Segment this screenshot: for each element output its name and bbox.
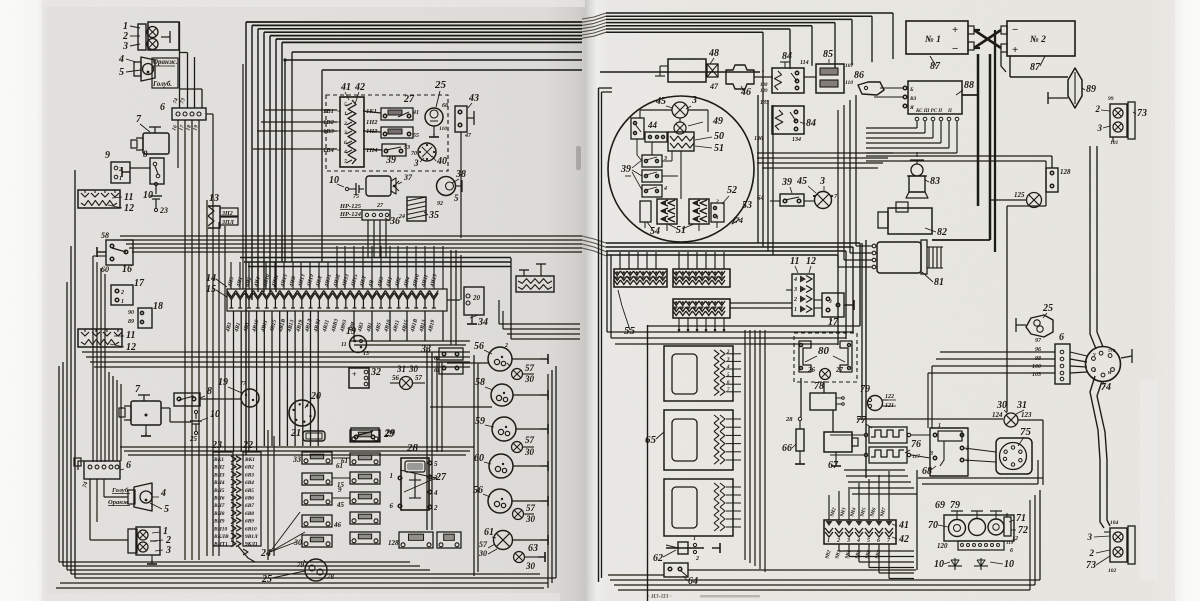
wire left edge loops (74, 170, 76, 578)
svg-text:4: 4 (726, 365, 730, 370)
wire cluster internals (679, 118, 681, 122)
component 9 switch (111, 162, 130, 183)
cluster box 54 (640, 201, 651, 222)
svg-text:6В2: 6В2 (245, 465, 254, 471)
svg-text:−: − (952, 43, 958, 55)
wire center verticals long (206, 200, 208, 556)
lamp in 80 (820, 369, 831, 380)
battery crossover wires (974, 30, 1001, 48)
svg-text:8: 8 (207, 386, 212, 397)
svg-text:86: 86 (854, 70, 864, 81)
lamp 40-3 (418, 143, 436, 161)
wire connector 6 down bundle (177, 120, 179, 168)
wire battery2 to 89 (1009, 56, 1011, 77)
wire top bus over 55 (606, 246, 853, 248)
lamp 30-31 right (1004, 413, 1018, 427)
svg-text:25: 25 (1042, 303, 1053, 314)
svg-text:3: 3 (793, 287, 797, 293)
svg-text:48: 48 (708, 48, 719, 59)
battery No2 (1007, 21, 1075, 56)
svg-text:73: 73 (1086, 560, 1096, 571)
svg-text:3: 3 (929, 451, 933, 457)
svg-text:+: + (352, 370, 357, 379)
wire 74 right T (1121, 356, 1132, 358)
horn T left (1016, 324, 1026, 326)
svg-text:19: 19 (346, 326, 356, 337)
bottom motor 7 b (131, 401, 161, 425)
wire bus into connector 6 right (940, 351, 1055, 353)
instrument cluster circle (608, 96, 754, 242)
wire misc bottom (199, 559, 430, 561)
svg-text:109: 109 (760, 89, 768, 94)
wire 55 left feed verticals (606, 251, 608, 332)
svg-text:4: 4 (118, 54, 124, 65)
svg-text:1В4: 1В4 (323, 147, 335, 154)
svg-text:124: 124 (992, 411, 1003, 419)
svg-text:31: 31 (1016, 400, 1027, 411)
wire 55 feeds top (619, 252, 621, 269)
wire bus line y70 (322, 69, 582, 71)
svg-text:74: 74 (1101, 382, 1111, 393)
svg-text:30: 30 (478, 549, 487, 558)
svg-text:ВК1: ВК1 (244, 457, 255, 463)
svg-text:56: 56 (392, 374, 400, 382)
wire gutter crossing top bus (582, 13, 606, 19)
svg-text:23: 23 (159, 206, 168, 215)
wire x237-243 bundle (236, 120, 238, 289)
wire bottom left loop horizontals (75, 577, 556, 579)
ground resistor bank right (516, 276, 554, 292)
wire bottom nested loops right page (614, 557, 836, 559)
svg-text:57: 57 (525, 435, 535, 445)
svg-text:42: 42 (354, 82, 365, 93)
wire block C to divider (730, 302, 792, 304)
svg-text:5: 5 (119, 67, 124, 78)
svg-text:11: 11 (124, 192, 133, 203)
wire 41-42 below fan (838, 544, 840, 551)
switch 64 (664, 563, 688, 577)
svg-text:88: 88 (964, 80, 974, 91)
svg-text:101: 101 (1110, 140, 1119, 146)
svg-text:3: 3 (122, 41, 128, 52)
wire 7b 8b links (199, 398, 241, 400)
wire top bus bundle left page (246, 21, 582, 23)
wire 55c bottom pins (678, 318, 680, 330)
svg-text:ЗН2: ЗН2 (221, 211, 233, 217)
svg-text:30: 30 (996, 400, 1007, 411)
svg-text:60: 60 (474, 453, 484, 464)
sensor 79 right (868, 396, 883, 411)
svg-text:7: 7 (344, 159, 347, 165)
svg-text:66: 66 (782, 443, 792, 454)
svg-text:6: 6 (1059, 332, 1064, 343)
wire lamp 3031 right (1018, 419, 1043, 421)
svg-text:55: 55 (624, 325, 636, 337)
svg-text:5: 5 (164, 504, 169, 515)
svg-text:Голуб: Голуб (111, 487, 129, 494)
cluster box 52 (711, 203, 724, 222)
svg-text:КС Ш РС П: КС Ш РС П (915, 109, 943, 114)
svg-text:68: 68 (922, 466, 932, 477)
svg-text:2: 2 (836, 538, 840, 544)
ignition coil 83 (911, 164, 923, 176)
svg-text:17: 17 (134, 278, 145, 289)
lamp 2 top (147, 27, 158, 38)
svg-text:41: 41 (412, 110, 419, 116)
ignition switch 20 (289, 400, 315, 426)
cluster heater blocks (657, 199, 677, 224)
svg-text:20: 20 (472, 294, 481, 302)
svg-text:42: 42 (898, 534, 909, 545)
battery cables down (977, 54, 980, 206)
svg-text:33: 33 (292, 455, 301, 464)
connector block 55 a (614, 269, 667, 287)
svg-text:1: 1 (827, 538, 830, 544)
svg-text:6В8: 6В8 (245, 511, 254, 517)
wire 77-76 left links (830, 434, 864, 436)
svg-text:2: 2 (433, 504, 438, 512)
wire lamp3130 (390, 382, 399, 384)
svg-text:Оранж.: Оранж. (153, 58, 178, 66)
diode 10 b (980, 558, 982, 570)
component 38 lamp (437, 177, 456, 196)
svg-text:47: 47 (709, 82, 719, 91)
svg-text:5: 5 (344, 102, 347, 108)
svg-text:37: 37 (403, 173, 413, 182)
svg-text:1: 1 (938, 423, 941, 429)
divider strip 11-12 right (792, 274, 814, 316)
lamp unit 73 top right (1110, 104, 1127, 137)
connector strip 22-23 (213, 452, 233, 546)
svg-text:6В4: 6В4 (245, 480, 254, 486)
svg-text:136: 136 (754, 136, 763, 142)
svg-text:61: 61 (484, 527, 494, 538)
svg-text:5: 5 (434, 460, 438, 468)
lamp 63 (514, 552, 525, 563)
capacitor 10 b (194, 410, 197, 413)
capacitor 10-75 mid (345, 187, 348, 190)
svg-text:+: + (952, 24, 958, 36)
wire 37 connections (347, 185, 366, 187)
wire horizontals y257 (240, 257, 511, 259)
svg-text:28: 28 (785, 416, 793, 423)
cluster switches 39 triple (642, 155, 662, 167)
battery No1 (906, 21, 968, 54)
connector block 55 b (673, 269, 730, 287)
lamp unit 1-3 b (136, 527, 160, 555)
svg-text:1Н2: 1Н2 (366, 119, 378, 126)
svg-text:24: 24 (260, 548, 271, 559)
wiper motor 37 (366, 176, 391, 196)
fog lamp 61 (494, 531, 513, 550)
wire 36 down bundle (367, 220, 369, 257)
wire 73 top down (1096, 137, 1098, 146)
svg-text:85: 85 (823, 49, 833, 60)
svg-text:56: 56 (474, 341, 484, 352)
wire horn down (1039, 337, 1041, 352)
cluster box 44 (645, 132, 667, 142)
switch 27 a (381, 108, 413, 120)
wire 41-42 loops above (844, 469, 905, 471)
svg-text:62: 62 (653, 553, 663, 564)
wire bottom mid verticals (267, 430, 269, 560)
svg-text:68: 68 (442, 103, 448, 109)
svg-text:5: 5 (867, 538, 870, 544)
svg-text:Голуб.: Голуб. (152, 80, 172, 88)
svg-text:79: 79 (860, 384, 870, 395)
svg-text:Оранж: Оранж (108, 499, 130, 506)
svg-text:9В1Л: 9В1Л (245, 534, 258, 540)
svg-text:4: 4 (663, 186, 667, 192)
lamp circles b (138, 530, 148, 540)
gauge 70 (949, 520, 966, 537)
wire gutter crossing mid bus (582, 236, 606, 243)
svg-text:25: 25 (434, 79, 447, 91)
svg-text:1: 1 (693, 536, 696, 542)
svg-text:27: 27 (376, 203, 384, 209)
horn 25 right (1026, 315, 1053, 337)
svg-text:87: 87 (930, 61, 941, 72)
lamp 3 top (147, 39, 158, 50)
svg-text:3: 3 (726, 358, 730, 363)
wire 75 loops right (1032, 459, 1043, 461)
wire circle-right vertical bundle (757, 95, 759, 243)
switch 27 b (381, 127, 413, 138)
svg-text:30: 30 (524, 447, 535, 457)
svg-text:89: 89 (1086, 84, 1096, 95)
svg-text:№ 1: № 1 (925, 35, 941, 45)
svg-text:134: 134 (792, 137, 801, 143)
gauge top T bars (951, 510, 963, 512)
wire verticals into strip from top (230, 262, 232, 289)
wire 41-42 verticals above (828, 495, 830, 520)
svg-text:29: 29 (383, 429, 394, 440)
wire 88 terminal drops (916, 121, 918, 128)
lamp unit 1-3 top housing (148, 22, 179, 50)
svg-text:4: 4 (160, 488, 166, 499)
wire 88 right to cables (962, 94, 978, 96)
wire 68 to 75 (964, 448, 996, 452)
svg-text:3: 3 (1097, 123, 1103, 133)
svg-text:ВЗ: ВЗ (909, 96, 916, 102)
lamp 25 instrument (425, 108, 443, 126)
wire left small bundle (92, 256, 94, 462)
svg-text:Б: Б (909, 87, 914, 93)
motor 7 (143, 133, 169, 154)
svg-text:9КЛ1: 9КЛ1 (245, 542, 258, 548)
relay 84 a (772, 68, 804, 93)
distributor small 19 (350, 336, 367, 353)
component 48 (668, 59, 706, 82)
svg-text:75: 75 (1020, 426, 1032, 438)
connector strip 14-15 (227, 289, 447, 311)
wire from connector right (206, 113, 213, 115)
svg-text:НР-125: НР-125 (339, 203, 362, 210)
svg-text:38: 38 (455, 169, 466, 180)
svg-text:69: 69 (935, 500, 945, 511)
starter 82 (888, 208, 932, 234)
lamp 45-3 b (815, 192, 832, 209)
svg-text:10: 10 (1004, 559, 1014, 570)
svg-text:78: 78 (327, 573, 335, 581)
connector 6 top (172, 108, 206, 120)
svg-text:27: 27 (403, 94, 415, 105)
svg-text:21: 21 (290, 428, 301, 439)
wire lamp column verticals (473, 355, 475, 576)
component 85 (816, 64, 844, 93)
wire left trunk upper (111, 170, 120, 172)
svg-text:79: 79 (950, 500, 960, 511)
lamp 5 glass top (143, 64, 154, 75)
wire fuse labels left (265, 109, 337, 111)
relay column A (302, 452, 332, 464)
component 21 (303, 431, 325, 441)
fuse 35 hatched box (407, 197, 426, 221)
gauge right (988, 519, 1004, 535)
svg-text:71: 71 (1016, 513, 1026, 524)
svg-text:I: I (1094, 368, 1096, 373)
svg-text:82: 82 (937, 227, 947, 238)
svg-text:87: 87 (1030, 62, 1041, 73)
wire mid-right horizontal y419 (857, 418, 1003, 420)
svg-text:ЗПЛ: ЗПЛ (221, 220, 235, 226)
wire right mid vertical bundle (855, 95, 857, 246)
svg-text:74: 74 (735, 216, 743, 225)
side lamp 4-5 b (134, 483, 152, 511)
svg-text:12: 12 (1012, 536, 1018, 542)
svg-text:78: 78 (814, 381, 824, 392)
svg-text:1: 1 (121, 299, 124, 305)
svg-text:−: − (1012, 24, 1018, 36)
relay 75 socket (996, 438, 1032, 474)
relay box 80 dashed (794, 333, 857, 382)
fuse panel dashed box (326, 95, 448, 171)
svg-text:135: 135 (760, 100, 769, 106)
svg-text:3: 3 (433, 474, 438, 482)
svg-text:83: 83 (930, 176, 940, 187)
headlamp 56 a (488, 347, 512, 371)
svg-text:80: 80 (818, 345, 830, 357)
svg-text:41: 41 (340, 82, 351, 93)
wire 39c to lamp (804, 200, 814, 202)
svg-text:9: 9 (105, 150, 110, 161)
switch block 68 (930, 428, 968, 476)
svg-text:43: 43 (468, 93, 479, 104)
svg-text:67: 67 (828, 460, 839, 471)
resistor block 11-12 upper (78, 190, 120, 208)
wire relay feeds from strip (281, 451, 283, 453)
wire 65 right vertical bundle (744, 330, 746, 560)
svg-text:122: 122 (885, 394, 894, 400)
distributor 74 (1086, 347, 1121, 382)
svg-text:2: 2 (695, 556, 699, 562)
svg-text:44: 44 (647, 120, 658, 130)
svg-text:6: 6 (390, 502, 394, 510)
lamp unit 73 bottom right (1110, 528, 1127, 562)
battery 32 small (349, 368, 369, 388)
instrument panel 65 box2 (664, 410, 733, 470)
svg-text:6: 6 (344, 140, 347, 146)
svg-text:6В10: 6В10 (245, 526, 257, 532)
svg-text:70: 70 (411, 151, 417, 157)
wire 88 left terminals (880, 87, 903, 89)
wire corner loops near 81 bottom-left (614, 274, 850, 310)
wire bus line y60 (285, 59, 582, 61)
wire lamp45 to box (152, 58, 178, 88)
wire 125 connections (990, 199, 1026, 201)
svg-text:4: 4 (343, 149, 347, 155)
component 28 flasher (401, 458, 429, 510)
svg-text:39: 39 (781, 177, 792, 188)
svg-text:46: 46 (740, 87, 751, 98)
headlamp 59 (492, 417, 516, 441)
svg-text:Я: Я (909, 105, 914, 111)
connector 33 (439, 348, 463, 360)
svg-text:· ИЗ-ПЗ ·: · ИЗ-ПЗ · (648, 594, 672, 600)
svg-text:77: 77 (856, 415, 867, 426)
connector 36 (362, 210, 390, 220)
svg-text:72: 72 (1018, 525, 1028, 536)
wire connector6 to 74 (1070, 352, 1087, 356)
wire verticals below strip (233, 311, 235, 452)
svg-text:30: 30 (293, 538, 302, 547)
wire bottom loop risers (555, 366, 557, 578)
svg-text:89: 89 (128, 319, 134, 325)
svg-text:26: 26 (807, 366, 816, 374)
svg-text:3: 3 (819, 176, 825, 187)
wire generator terminals left (856, 245, 872, 247)
svg-text:2: 2 (120, 290, 124, 296)
svg-text:102: 102 (1108, 568, 1117, 574)
svg-text:6: 6 (1010, 548, 1013, 554)
dome lamp 79-78 (305, 559, 327, 581)
svg-text:1УВ: 1УВ (1108, 348, 1116, 353)
component 46 (726, 65, 754, 89)
cluster lamp 49 (674, 122, 686, 134)
cluster gauge 50-51 (668, 132, 694, 151)
svg-text:28: 28 (406, 442, 419, 454)
fuse block 41-42 (340, 97, 364, 167)
wire relay area links (332, 457, 350, 459)
svg-text:108: 108 (760, 83, 768, 88)
svg-text:3: 3 (1087, 532, 1093, 542)
relay 127 (437, 532, 461, 548)
switch 29 mid (351, 428, 379, 441)
svg-text:30: 30 (524, 374, 535, 384)
svg-text:3: 3 (343, 130, 347, 136)
svg-text:25: 25 (189, 435, 198, 443)
svg-text:8: 8 (143, 149, 148, 159)
terminal T lamp unit top (161, 36, 170, 38)
cluster switch left (631, 118, 644, 139)
svg-text:41: 41 (898, 520, 909, 531)
wire lamp column ties (512, 358, 540, 360)
wire gutter-edge verticals (598, 88, 600, 582)
fuel filter 89 (1068, 68, 1082, 108)
gauge 79 mid (969, 519, 986, 536)
svg-text:ВКЛВ: ВКЛВ (213, 534, 229, 540)
svg-text:81: 81 (934, 277, 944, 288)
connector 120 strip (958, 541, 1004, 550)
wire gauges bottom links (956, 550, 958, 556)
svg-text:22: 22 (242, 440, 253, 451)
svg-text:3: 3 (846, 538, 850, 544)
svg-text:128: 128 (1060, 168, 1071, 176)
svg-text:30: 30 (525, 561, 536, 571)
switch 39 c (780, 194, 804, 206)
connector 6 b (84, 461, 120, 479)
svg-text:47: 47 (464, 133, 472, 139)
